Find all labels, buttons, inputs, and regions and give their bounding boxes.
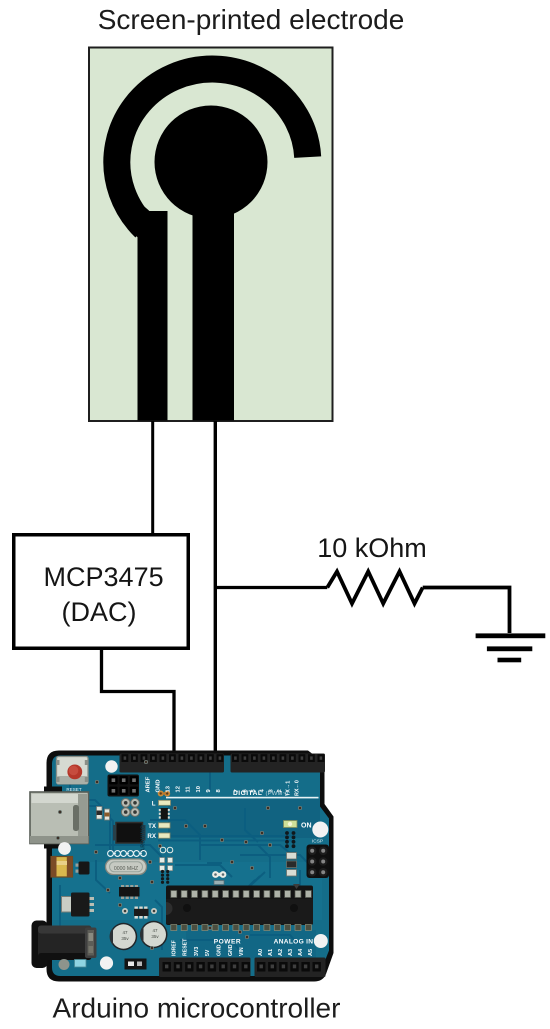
counter electrode arc xyxy=(117,69,308,228)
svg-text:47: 47 xyxy=(152,928,158,933)
white pad pair above chip xyxy=(212,871,219,878)
power jack rear flange xyxy=(32,921,48,969)
svg-text:A1: A1 xyxy=(268,949,274,956)
svg-text:A4: A4 xyxy=(298,948,304,956)
PCB traces xyxy=(60,800,110,850)
crystal oscillator xyxy=(106,859,147,875)
smd resistor pair xyxy=(287,852,296,876)
PCB tonal shade panels xyxy=(168,799,320,838)
white component cluster mid-left xyxy=(160,847,166,853)
svg-text:TX: TX xyxy=(148,823,157,830)
svg-text:(DAC): (DAC) xyxy=(62,597,137,627)
USB connector black frame at board edge xyxy=(44,787,62,849)
mini pin grid left of chip xyxy=(161,870,164,873)
svg-text:RX←0: RX←0 xyxy=(294,780,300,796)
svg-text:35v: 35v xyxy=(151,934,159,939)
ON LED xyxy=(284,821,298,828)
top pin header strip A (digital 8-13) xyxy=(120,754,225,773)
header socket teeth top xyxy=(122,754,129,762)
svg-text:VIN: VIN xyxy=(239,947,245,956)
svg-text:A2: A2 xyxy=(278,949,284,956)
top pin header strip B (digital 0-7) xyxy=(231,754,326,773)
svg-text:IOREF: IOREF xyxy=(171,940,177,956)
svg-text:MCP3475: MCP3475 xyxy=(44,562,164,592)
ICSP header xyxy=(307,845,330,879)
electrolytic capacitor C2 xyxy=(140,921,167,948)
Arduino board group xyxy=(30,751,334,982)
svg-text:A3: A3 xyxy=(288,949,294,956)
electrolytic capacitor C1 xyxy=(110,923,137,950)
resistor network smd xyxy=(161,808,169,820)
small component cluster with ring pads xyxy=(122,908,128,914)
svg-text:2: 2 xyxy=(277,789,283,792)
polyfuse yellow component xyxy=(51,857,73,878)
power jack barrel xyxy=(38,926,92,961)
2x3 pin header (USB ICSP) xyxy=(108,775,140,797)
Arduino PCB teal substrate xyxy=(52,756,329,977)
svg-text:12: 12 xyxy=(176,786,182,792)
header socket teeth bottom xyxy=(163,962,171,972)
svg-text:Screen-printed electrode: Screen-printed electrode xyxy=(98,4,405,35)
black smd with marks xyxy=(125,959,147,970)
svg-text:13: 13 xyxy=(166,785,172,792)
mounting hole bottom-left xyxy=(100,956,113,969)
counter electrode stem xyxy=(138,211,168,421)
small smd cluster under ON xyxy=(285,831,289,835)
svg-text:A5: A5 xyxy=(308,949,314,956)
mounting hole bottom-right xyxy=(314,934,328,948)
counter electrode arc-stem junction xyxy=(122,207,160,244)
ATmega328 DIP-28 chip pins top xyxy=(171,891,177,898)
svg-text:ON: ON xyxy=(301,823,312,830)
svg-text:Arduino microcontroller: Arduino microcontroller xyxy=(53,993,341,1024)
wire W2: electrode right trace down to Arduino xyxy=(214,421,217,756)
teal smd cap xyxy=(75,960,87,968)
Arduino board outline (black PCB edge) xyxy=(47,751,334,982)
svg-text:RESET: RESET xyxy=(66,787,82,792)
USB connector metal body xyxy=(30,792,89,844)
vertical smd resistor xyxy=(97,807,103,820)
mounting hole top-right xyxy=(312,822,328,838)
power jack front face xyxy=(85,928,97,959)
mounting hole top-left xyxy=(105,760,117,772)
svg-text:5V: 5V xyxy=(205,949,211,956)
svg-text:47: 47 xyxy=(122,930,128,935)
svg-text:35v: 35v xyxy=(121,936,129,941)
svg-text:GND: GND xyxy=(217,944,223,956)
working electrode disc xyxy=(155,106,268,219)
ATmega16U2 chip xyxy=(116,823,143,844)
svg-text:L: L xyxy=(152,801,156,808)
bottom header strip POWER xyxy=(159,958,251,978)
bottom header strip ANALOG IN xyxy=(255,958,326,978)
ATmega328 DIP-28 body xyxy=(166,886,313,926)
ATmega328 DIP-28 chip pins bottom xyxy=(171,925,177,931)
MCP3475 box U1 xyxy=(14,535,189,649)
silkscreen divider line xyxy=(166,797,319,799)
svg-text:3V3: 3V3 xyxy=(194,947,200,956)
ground symbol xyxy=(476,633,546,662)
svg-text:10: 10 xyxy=(196,786,202,792)
svg-text:TX→1: TX→1 xyxy=(285,781,291,796)
wire W3: MCP3475 output to Arduino xyxy=(102,650,175,756)
svg-text:GND: GND xyxy=(155,780,161,793)
L TX RX silkscreen and LEDs xyxy=(158,791,164,797)
svg-text:A0: A0 xyxy=(258,949,264,956)
voltage regulator with tab xyxy=(62,897,74,913)
svg-text:RESET: RESET xyxy=(183,938,189,956)
gray pad under jack xyxy=(59,959,70,970)
svg-text:POWER: POWER xyxy=(214,939,241,946)
wire W5: resistor to ground xyxy=(423,588,510,634)
infinity logo xyxy=(108,851,114,857)
mounting hole mid-left xyxy=(58,842,71,855)
8-pin IC xyxy=(121,885,124,889)
svg-text:11: 11 xyxy=(186,786,192,793)
scattered vias xyxy=(95,780,98,783)
working electrode stem xyxy=(193,150,235,421)
svg-text:AREF: AREF xyxy=(145,776,151,792)
resistor R1 10 kOhm zigzag xyxy=(327,572,422,604)
svg-text:GND: GND xyxy=(228,944,234,956)
electrode substrate pad xyxy=(89,48,333,422)
svg-text:ICSP: ICSP xyxy=(312,839,323,845)
small transistor xyxy=(79,862,90,875)
reset button xyxy=(57,757,89,785)
svg-text:7: 7 xyxy=(234,789,240,792)
svg-text:ANALOG IN: ANALOG IN xyxy=(274,939,314,946)
svg-text:RX: RX xyxy=(147,833,156,840)
2x2 through-hole pads xyxy=(121,799,130,808)
svg-text:ARDUINO: ARDUINO xyxy=(141,825,147,852)
wire W1: electrode left trace to MCP3475 xyxy=(151,421,154,535)
svg-text:10 kOhm: 10 kOhm xyxy=(317,533,427,563)
svg-text:0000 MHZ: 0000 MHZ xyxy=(114,866,138,872)
wire W4: junction to resistor xyxy=(214,586,327,589)
